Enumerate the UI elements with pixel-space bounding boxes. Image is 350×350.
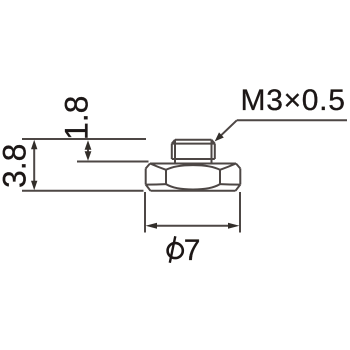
extension line top (thread top plane): [22, 138, 146, 140]
hex left edge: [145, 169, 147, 185]
thread bottom line: [172, 158, 215, 160]
leader line diagonal: [219, 120, 237, 137]
arrowhead phi7 left: [146, 223, 158, 229]
hex right facet line: [219, 170, 221, 184]
hex left facet top arc: [150, 164, 166, 170]
hex bottom line: [151, 190, 236, 192]
hex bottom-right corner chamfer: [236, 185, 241, 191]
hex bottom-left corner chamfer: [146, 185, 151, 191]
extension line middle (hex top plane): [77, 161, 149, 163]
extension line bottom (part bottom plane): [22, 190, 144, 192]
svg-text:M3×0.5: M3×0.5: [241, 84, 346, 117]
arrowhead 1.8 up: [85, 140, 92, 150]
thread top line: [175, 139, 212, 141]
thread outer left (major dia): [171, 144, 173, 159]
hex center facet top arc: [166, 165, 220, 170]
dimension 3.8 shaft: [33, 146, 35, 184]
thread chamfer line: [172, 143, 215, 145]
hex top line: [150, 163, 236, 165]
phi7 extension line left: [144, 192, 146, 233]
arrowhead 1.8 down: [85, 151, 92, 161]
hex right edge: [239, 169, 241, 185]
thread top-right chamfer: [212, 140, 215, 144]
hex left facet line: [165, 170, 167, 184]
hex top-right corner chamfer: [236, 164, 240, 169]
thread inner right / neck (minor dia): [211, 140, 213, 164]
arrowhead 3.8 down: [31, 181, 37, 191]
arrowhead 3.8 up: [31, 140, 37, 150]
leader line horizontal: [237, 119, 347, 121]
hex right facet top arc: [220, 164, 236, 170]
hex center facet bottom arc: [166, 184, 220, 189]
label phi symbol (drawn: circle + slanted bar): [168, 243, 183, 258]
hex right facet bottom edge: [220, 183, 240, 186]
phi7 extension line right: [239, 192, 241, 233]
thread outer right (major dia): [214, 144, 216, 159]
hex left facet bottom edge: [146, 183, 166, 186]
svg-text:1.8: 1.8: [59, 96, 95, 140]
svg-text:3.8: 3.8: [0, 144, 33, 188]
arrowhead leader (points to thread): [215, 132, 224, 141]
thread top-left chamfer: [172, 140, 175, 144]
arrowhead phi7 right: [228, 223, 240, 229]
thread inner left / neck (minor dia): [174, 140, 176, 164]
phi7 dimension line: [152, 225, 233, 227]
hex top-left corner chamfer: [146, 164, 150, 169]
dimension 1.8 shaft: [87, 145, 89, 156]
svg-text:7: 7: [184, 234, 201, 267]
